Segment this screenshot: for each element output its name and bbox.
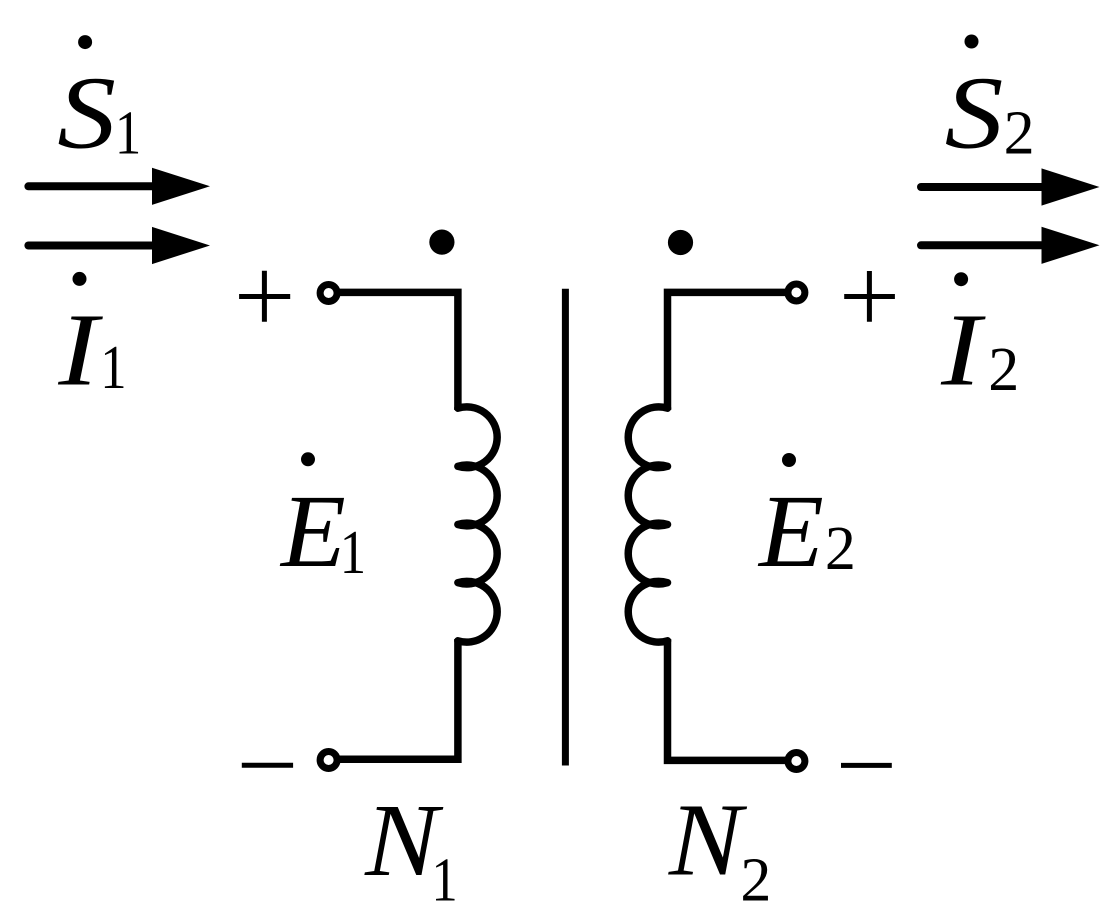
svg-text:1: 1 [431, 847, 457, 915]
plus sign right [844, 271, 895, 322]
label N1 (primary turns) [364, 784, 458, 915]
terminal circle bottom-left [320, 752, 337, 769]
core line [562, 289, 569, 766]
minus sign left [242, 763, 293, 768]
svg-text:2: 2 [740, 847, 771, 915]
winding N2 (secondary coil with leads) [628, 292, 788, 760]
terminal circle top-left [320, 285, 337, 302]
winding N1 (primary coil with leads) [338, 292, 497, 759]
svg-text:E: E [279, 473, 346, 589]
svg-text:2: 2 [825, 515, 856, 583]
terminal circle bottom-right [788, 753, 805, 770]
svg-text:S: S [57, 56, 116, 171]
svg-text:E: E [757, 473, 824, 589]
svg-text:2: 2 [1004, 99, 1035, 167]
polarity dot right [668, 230, 693, 255]
arrow for I1 (current in) [28, 227, 210, 264]
label I2 phasor (dot over I) [940, 272, 1019, 407]
label E2 phasor (dot over E) [757, 453, 856, 589]
label I1 phasor (dot over I) [57, 272, 126, 408]
plus sign left [239, 271, 290, 322]
label S2 phasor (dot over S) [945, 35, 1035, 172]
svg-text:1: 1 [115, 100, 141, 168]
svg-text:S: S [945, 56, 1004, 171]
terminal circle top-right [788, 284, 805, 301]
label S1 phasor (dot over S) [57, 35, 141, 171]
polarity dot left [429, 230, 454, 255]
label N2 (secondary turns) [668, 783, 772, 914]
svg-text:2: 2 [988, 336, 1019, 404]
arrow for I2 (current out) [921, 227, 1100, 264]
label E1 phasor (dot over E) [279, 452, 366, 588]
minus sign right [841, 763, 892, 768]
svg-text:1: 1 [100, 334, 126, 402]
svg-text:I: I [57, 293, 103, 408]
arrow for S2 (apparent power out) [921, 168, 1100, 205]
svg-text:N: N [668, 783, 748, 898]
svg-text:1: 1 [340, 519, 366, 587]
svg-text:I: I [940, 293, 986, 408]
arrow for S1 (apparent power in) [28, 168, 210, 205]
